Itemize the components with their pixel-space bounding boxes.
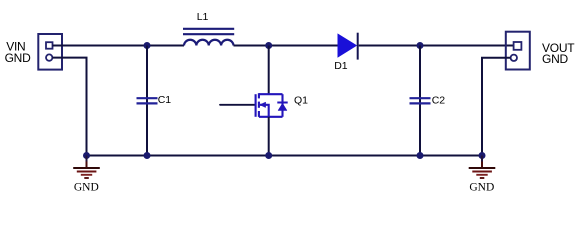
- transistor Q1 (N-MOSFET with body diode): [256, 93, 288, 117]
- svg-text:L1: L1: [197, 11, 209, 23]
- pin 2 circle (GND): [46, 54, 52, 60]
- wire top rail middle segment: [234, 45, 339, 47]
- node: bottom rail / Q1 source junction: [265, 152, 272, 159]
- node: top rail / Q1 drain junction: [265, 42, 272, 49]
- capacitor C2: [410, 98, 431, 103]
- node: bottom rail / C1 junction: [144, 152, 151, 159]
- pin 2 circle (GND): [511, 55, 517, 61]
- svg-text:Q1: Q1: [294, 95, 308, 107]
- pin 1 square (VOUT): [514, 42, 522, 50]
- ground (right): [469, 156, 496, 179]
- wire top rail left segment: [53, 45, 185, 47]
- wire Q1 drain lead: [268, 46, 270, 95]
- wire J2 GND pin to bottom-right node: [482, 58, 511, 156]
- svg-text:D1: D1: [334, 60, 347, 72]
- svg-text:GND: GND: [469, 181, 494, 193]
- node: bottom-right / ground junction: [479, 152, 486, 159]
- wire C1 lead: [146, 46, 148, 156]
- wire Q1 gate lead: [220, 104, 255, 106]
- svg-text:C1: C1: [158, 94, 171, 106]
- capacitor C1: [137, 98, 158, 103]
- node: bottom-left / ground junction: [83, 152, 90, 159]
- diode D1: [338, 33, 358, 60]
- node: top rail / C2 junction: [417, 42, 424, 49]
- wire Q1 source lead: [268, 117, 270, 156]
- connector J1 body: [38, 34, 62, 70]
- connector J2 body: [506, 32, 530, 70]
- ground (left): [73, 156, 100, 179]
- pin 1 square (VIN): [46, 42, 53, 49]
- wire C2 lead: [419, 46, 421, 156]
- node: bottom rail / C2 junction: [417, 152, 424, 159]
- wire top rail right segment: [359, 45, 514, 47]
- svg-text:GND: GND: [74, 181, 99, 193]
- wire bottom rail: [87, 155, 483, 157]
- svg-text:GND: GND: [5, 51, 32, 65]
- wire J1 GND pin to bottom-left node: [52, 58, 86, 156]
- node: top rail / C1 junction: [144, 42, 151, 49]
- inductor L1: [183, 29, 234, 46]
- svg-text:C2: C2: [432, 95, 445, 107]
- svg-text:GND: GND: [542, 52, 569, 66]
